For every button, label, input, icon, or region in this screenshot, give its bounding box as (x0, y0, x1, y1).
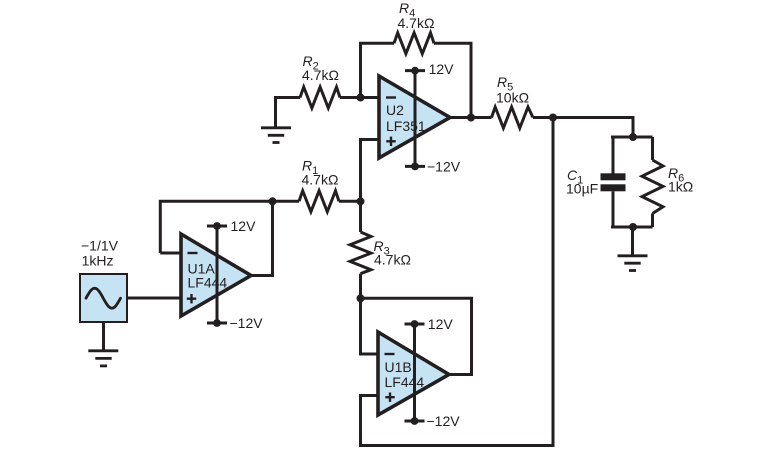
wire U2 non-inverting input (361, 140, 380, 202)
svg-text:−12V: −12V (230, 315, 264, 331)
resistor R6 (651, 137, 654, 160)
power -12V (U1A) (207, 315, 263, 331)
op-amp U1A (181, 226, 251, 323)
svg-text:U1B: U1B (385, 359, 412, 375)
wire R2 input horizontal to U2 inverting input (276, 98, 301, 128)
resistor R4 (394, 33, 434, 54)
svg-text:12V: 12V (428, 316, 454, 332)
power +12V (U1B) (405, 316, 454, 332)
svg-text:4.7kΩ: 4.7kΩ (302, 171, 339, 187)
svg-text:−12V: −12V (427, 413, 461, 429)
power -12V (U2) (405, 158, 461, 174)
wire U1B inverting input (361, 298, 379, 354)
label R4 (398, 0, 435, 31)
node U2 inverting input (357, 94, 365, 102)
svg-text:4.7kΩ: 4.7kΩ (302, 67, 339, 83)
svg-text:4.7kΩ: 4.7kΩ (398, 15, 435, 31)
power +12V (U2) (405, 61, 454, 77)
wire C1/R6 top bar (611, 136, 653, 139)
wire R1 line (U1A loop top + R1) (160, 201, 299, 253)
label R5 (496, 74, 529, 105)
ground (C1/R6) (631, 227, 634, 256)
wire U2 output to R5 (450, 116, 492, 119)
svg-text:LF444: LF444 (385, 374, 425, 390)
ground (R2) (261, 128, 291, 143)
node U2 output / R4 (467, 114, 475, 122)
svg-text:10kΩ: 10kΩ (496, 89, 529, 105)
resistor R2 (300, 87, 340, 108)
power -12V (U1B) (405, 413, 461, 429)
power +12V (U1A) (207, 218, 256, 234)
svg-text:LF351: LF351 (386, 118, 426, 134)
resistor R1 (299, 191, 339, 212)
wire R4 feedback loop (361, 43, 395, 97)
label R6 (668, 165, 693, 194)
wire U1A inverting input (160, 252, 181, 255)
resistor R3 (359, 201, 362, 232)
label R3 (374, 238, 411, 267)
svg-text:U2: U2 (386, 102, 404, 118)
node C1/R6 bottom (629, 223, 637, 231)
svg-text:4.7kΩ: 4.7kΩ (374, 251, 411, 267)
svg-text:12V: 12V (429, 61, 455, 77)
svg-text:10µF: 10µF (566, 180, 598, 196)
op-amp U2 (379, 71, 450, 167)
node output (R5 / U1B rail) (549, 114, 557, 122)
wire U1B non-inverting input to bottom rail (361, 118, 554, 446)
source label (81, 238, 119, 269)
wire C1/R6 bottom bar (611, 226, 653, 229)
node R3 bottom (357, 294, 365, 302)
svg-text:−1/1V: −1/1V (81, 238, 119, 254)
source stub and ground (102, 321, 105, 351)
wire U1B feedback loop (361, 298, 472, 374)
svg-text:1kHz: 1kHz (82, 253, 114, 269)
svg-text:LF444: LF444 (188, 275, 228, 291)
svg-text:1kΩ: 1kΩ (668, 179, 693, 195)
source V1 sine box (80, 274, 127, 322)
op-amp U1B (378, 324, 449, 421)
resistor R5 (492, 107, 534, 128)
node C1/R6 top (629, 133, 637, 141)
label R2 (302, 53, 339, 83)
label R1 (302, 157, 339, 187)
svg-text:12V: 12V (231, 218, 257, 234)
svg-text:−12V: −12V (427, 158, 461, 174)
wire U1A output to feedback (251, 201, 273, 275)
capacitor C1 (612, 137, 615, 174)
label C1 (566, 167, 598, 196)
node R1 right (357, 197, 365, 205)
wire R5 to output node and C1/R6 (533, 118, 633, 138)
wire source to U1A non-inverting input (127, 297, 181, 300)
node R1 left (U1A feedback junction) (269, 197, 277, 205)
